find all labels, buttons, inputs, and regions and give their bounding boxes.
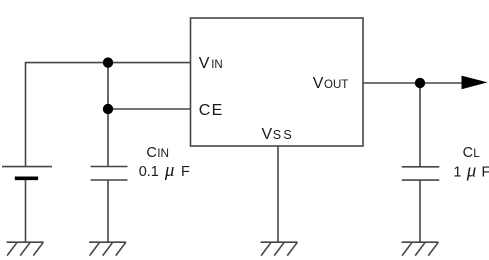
svg-text:CL: CL — [463, 145, 481, 161]
svg-text:0.1μF: 0.1μF — [139, 160, 190, 181]
svg-text:VSS: VSS — [262, 126, 294, 143]
svg-text:CE: CE — [199, 102, 222, 119]
svg-text:VOUT: VOUT — [313, 75, 348, 92]
svg-text:1μF: 1μF — [453, 161, 489, 182]
svg-text:VIN: VIN — [199, 55, 223, 72]
svg-text:CIN: CIN — [146, 145, 169, 161]
